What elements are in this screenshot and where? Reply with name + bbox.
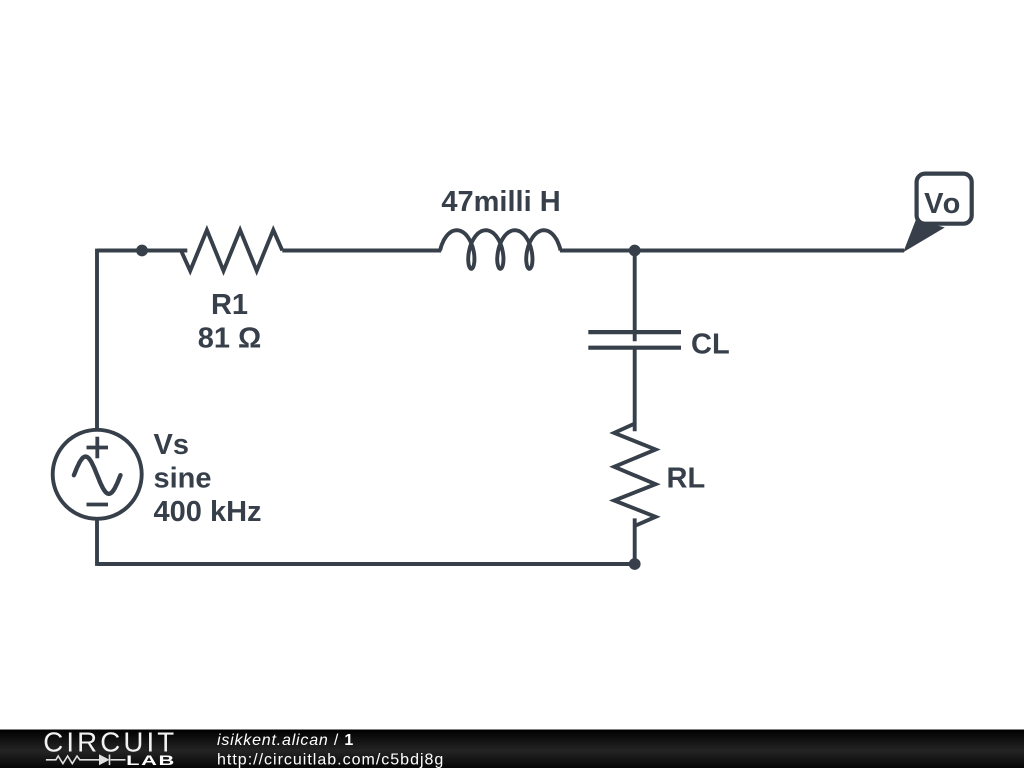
wire top-left horizontal	[97, 249, 187, 253]
label R1	[211, 289, 248, 321]
label Vs frequency 400 kHz	[154, 496, 262, 528]
label R1 value 81 ohm	[198, 323, 262, 355]
CircuitLab logo doodle diode triangle	[99, 754, 110, 765]
svg-text:47milli H: 47milli H	[441, 186, 560, 218]
CircuitLab logo doodle wire with resistor and diode	[46, 755, 126, 766]
wire R1 to L1	[282, 249, 441, 253]
resistor RL	[614, 424, 655, 526]
svg-text:Vo: Vo	[924, 188, 962, 220]
footer url line 2	[217, 752, 444, 768]
resistor R1	[181, 230, 282, 271]
Vo flag tail	[903, 220, 945, 253]
wire RL to bottom node	[633, 518, 637, 564]
CircuitLab logo word LAB	[126, 753, 176, 768]
capacitor CL bottom plate	[588, 346, 681, 350]
svg-text:http://circuitlab.com/c5bdj8g: http://circuitlab.com/c5bdj8g	[217, 752, 444, 768]
Vo flag label	[924, 188, 962, 220]
wire Vs bottom lead	[95, 518, 99, 566]
svg-text:81 Ω: 81 Ω	[198, 323, 262, 355]
svg-text:RL: RL	[667, 463, 706, 495]
svg-text:CL: CL	[691, 328, 730, 360]
node dot left	[136, 245, 148, 257]
label L1 value 47milli H	[441, 186, 560, 218]
wire node to Vo	[635, 249, 904, 253]
voltage source Vs circle	[53, 430, 142, 519]
Vo flag box	[917, 174, 972, 224]
label RL	[667, 463, 706, 495]
svg-text:LAB: LAB	[126, 753, 176, 768]
wire bottom horizontal	[97, 562, 635, 566]
svg-text:400 kHz: 400 kHz	[154, 496, 262, 528]
wire L1 to node	[560, 249, 635, 253]
voltage source plus sign	[87, 437, 109, 459]
CircuitLab logo word CIRCUIT	[43, 727, 177, 758]
voltage source minus sign	[87, 503, 109, 507]
node dot top (Vo node)	[629, 245, 641, 257]
svg-text:sine: sine	[154, 463, 212, 495]
label Vs	[154, 429, 189, 461]
svg-text:R1: R1	[211, 289, 248, 321]
node dot bottom	[629, 558, 641, 570]
inductor L1 47milli H	[440, 230, 560, 269]
svg-text:isikkent.alican / 1: isikkent.alican / 1	[217, 732, 354, 749]
wire CL to RL	[633, 348, 637, 432]
wire node down to CL	[633, 251, 637, 342]
wire left vertical	[95, 249, 99, 431]
capacitor CL top plate	[588, 330, 681, 334]
label Vs type sine	[154, 463, 212, 495]
svg-text:Vs: Vs	[154, 429, 189, 461]
label CL	[691, 328, 730, 360]
footer attribution line 1	[217, 732, 354, 749]
voltage source sine wave	[74, 457, 121, 494]
